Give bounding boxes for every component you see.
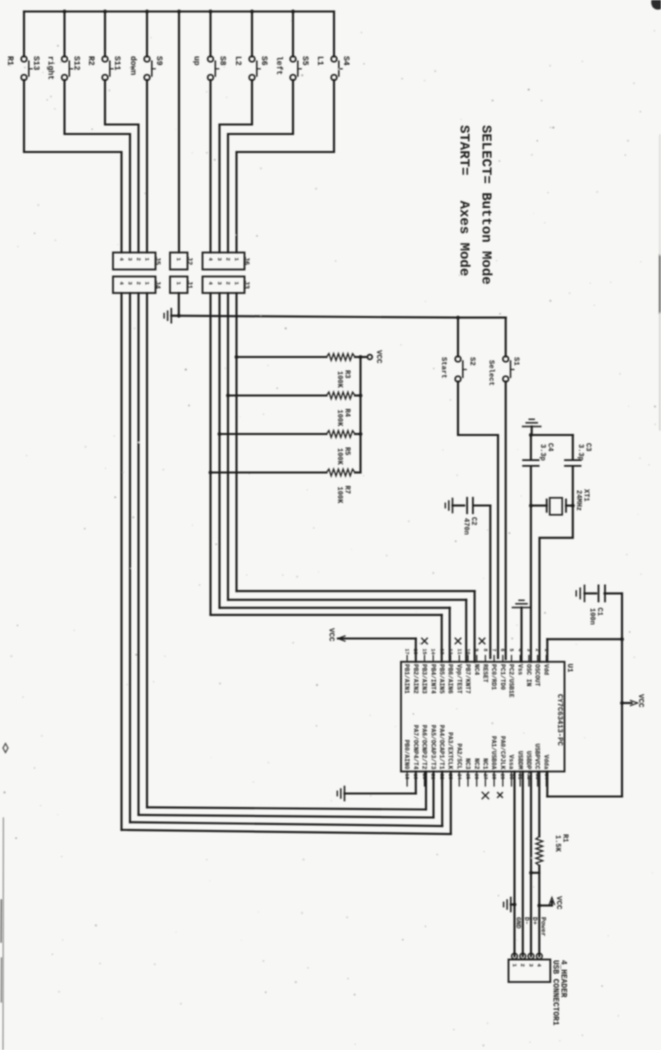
svg-text:S2: S2 — [467, 357, 475, 366]
svg-text:SELECT= Button Mode: SELECT= Button Mode — [478, 125, 494, 285]
svg-text:PB3/AIN3: PB3/AIN3 — [421, 664, 428, 694]
svg-text:USBDM: USBDM — [516, 751, 523, 770]
svg-text:down: down — [128, 56, 137, 75]
svg-text:1: 1 — [233, 258, 240, 262]
svg-text:24MHz: 24MHz — [574, 490, 582, 511]
svg-text:S9: S9 — [154, 56, 163, 66]
svg-text:10: 10 — [464, 649, 470, 655]
svg-text:J1: J1 — [185, 281, 193, 289]
svg-text:1: 1 — [511, 964, 518, 968]
svg-text:OSCOUT: OSCOUT — [534, 664, 541, 687]
svg-text:14: 14 — [430, 649, 436, 655]
svg-text:21: 21 — [430, 774, 436, 780]
svg-text:C4: C4 — [545, 443, 553, 451]
svg-text:Vdd: Vdd — [542, 664, 549, 675]
svg-text:28: 28 — [491, 774, 497, 780]
svg-text:PA3/EXTCLK: PA3/EXTCLK — [447, 732, 454, 769]
svg-text:22: 22 — [438, 774, 444, 780]
svg-text:100K: 100K — [335, 410, 343, 428]
svg-text:C1: C1 — [595, 608, 603, 616]
svg-text:L2: L2 — [233, 56, 242, 66]
svg-text:R5: R5 — [343, 447, 351, 455]
svg-text:4_HEADER: 4_HEADER — [558, 960, 566, 998]
svg-text:NC4: NC4 — [473, 664, 480, 675]
svg-text:8: 8 — [482, 649, 488, 652]
svg-text:NC3: NC3 — [464, 758, 471, 769]
svg-text:PB2/AIN2: PB2/AIN2 — [412, 664, 419, 694]
svg-text:GND: GND — [515, 917, 522, 929]
svg-text:2: 2 — [224, 282, 231, 285]
svg-text:R7: R7 — [343, 486, 351, 494]
svg-text:Vss: Vss — [516, 664, 523, 675]
svg-text:27: 27 — [482, 774, 488, 780]
svg-text:R2: R2 — [86, 56, 95, 66]
svg-text:1: 1 — [175, 282, 182, 286]
svg-text:Start: Start — [439, 357, 447, 379]
svg-text:PB7/KNT7: PB7/KNT7 — [464, 664, 471, 694]
svg-text:1: 1 — [143, 282, 150, 286]
svg-text:30: 30 — [508, 774, 514, 780]
svg-text:J4: J4 — [153, 281, 161, 289]
svg-text:PB0/AIN0: PB0/AIN0 — [403, 740, 410, 770]
svg-text:up: up — [192, 56, 201, 66]
svg-text:3: 3 — [527, 964, 534, 968]
svg-text:R3: R3 — [343, 370, 351, 378]
svg-text:USB CONNECTOR1: USB CONNECTOR1 — [551, 960, 559, 1026]
svg-text:left: left — [274, 56, 283, 75]
svg-text:3: 3 — [216, 282, 223, 286]
svg-text:12: 12 — [447, 649, 453, 655]
svg-text:29: 29 — [499, 774, 505, 780]
svg-text:Power: Power — [539, 917, 546, 937]
svg-text:PB6/AIN6: PB6/AIN6 — [447, 664, 454, 694]
svg-text:Vpp/TEST: Vpp/TEST — [455, 664, 462, 694]
svg-text:25: 25 — [464, 774, 470, 780]
svg-text:3.3p: 3.3p — [538, 444, 546, 461]
svg-text:PC2/USB1E: PC2/USB1E — [508, 664, 515, 698]
svg-text:U1: U1 — [565, 664, 573, 674]
svg-text:J2: J2 — [185, 257, 193, 265]
svg-text:2: 2 — [135, 258, 142, 261]
svg-text:6: 6 — [499, 649, 505, 652]
svg-text:VCC: VCC — [326, 628, 334, 642]
svg-text:4: 4 — [118, 258, 125, 262]
svg-text:PA6/OCNP2/T2: PA6/OCNP2/T2 — [421, 725, 428, 770]
svg-text:18: 18 — [404, 774, 410, 780]
svg-text:R1: R1 — [5, 56, 14, 66]
svg-text:17: 17 — [404, 649, 410, 655]
svg-text:S5: S5 — [300, 56, 309, 66]
svg-text:3: 3 — [126, 258, 133, 262]
svg-text:PA0/CPJLK: PA0/CPJLK — [499, 736, 506, 770]
svg-text:RESET: RESET — [482, 664, 489, 683]
svg-text:S4: S4 — [341, 56, 350, 66]
svg-text:2: 2 — [135, 282, 142, 285]
svg-text:VCC: VCC — [554, 896, 562, 910]
svg-text:PA1/USB0A: PA1/USB0A — [490, 736, 497, 770]
svg-text:XT1: XT1 — [581, 489, 589, 502]
svg-text:S11: S11 — [112, 56, 121, 71]
svg-text:23: 23 — [447, 774, 453, 780]
svg-text:24: 24 — [456, 774, 462, 780]
svg-text:PA2/SCL: PA2/SCL — [455, 744, 462, 770]
svg-text:2: 2 — [224, 258, 231, 261]
svg-text:5: 5 — [508, 649, 514, 652]
svg-text:R4: R4 — [343, 409, 351, 417]
svg-text:100K: 100K — [335, 448, 343, 466]
svg-text:S1: S1 — [511, 357, 519, 366]
svg-text:right: right — [46, 56, 55, 80]
svg-text:CY7C63413-PC: CY7C63413-PC — [555, 694, 563, 746]
svg-text:D-: D- — [523, 917, 530, 925]
svg-text:J6: J6 — [242, 257, 250, 265]
svg-text:R1: R1 — [560, 834, 568, 842]
svg-text:3: 3 — [216, 258, 223, 262]
svg-text:VCC: VCC — [636, 694, 644, 708]
svg-text:4: 4 — [118, 282, 125, 286]
svg-text:1: 1 — [233, 282, 240, 286]
svg-text:Vdda: Vdda — [542, 755, 549, 770]
svg-text:C3: C3 — [583, 443, 591, 451]
svg-text:Vssa: Vssa — [508, 755, 515, 770]
svg-text:2: 2 — [519, 964, 526, 967]
svg-text:USBPVCC: USBPVCC — [534, 744, 541, 770]
svg-text:100K: 100K — [335, 487, 343, 505]
svg-text:16: 16 — [412, 649, 418, 655]
svg-text:S12: S12 — [71, 56, 80, 71]
svg-text:20: 20 — [421, 774, 427, 780]
svg-text:11: 11 — [456, 649, 462, 655]
svg-text:3: 3 — [126, 282, 133, 286]
svg-text:1: 1 — [143, 258, 150, 262]
svg-text:NC2: NC2 — [473, 758, 480, 769]
svg-text:C2: C2 — [469, 517, 477, 525]
svg-text:4: 4 — [207, 282, 214, 286]
svg-text:7: 7 — [491, 649, 497, 652]
svg-text:J3: J3 — [242, 281, 250, 289]
svg-text:15: 15 — [421, 649, 427, 655]
svg-text:9: 9 — [473, 649, 479, 652]
svg-text:OSC IN: OSC IN — [525, 664, 532, 687]
svg-text:4: 4 — [536, 964, 543, 968]
svg-text:PA5/OCAP3/T3: PA5/OCAP3/T3 — [429, 725, 436, 770]
svg-text:4: 4 — [207, 258, 214, 262]
svg-text:1.5K: 1.5K — [553, 835, 561, 853]
svg-text:D+: D+ — [531, 917, 538, 925]
svg-text:S6: S6 — [259, 56, 268, 66]
svg-text:1: 1 — [175, 258, 182, 262]
svg-text:PC0/RD1: PC0/RD1 — [490, 664, 497, 690]
svg-text:J5: J5 — [153, 257, 161, 265]
svg-text:PB5/AIN5: PB5/AIN5 — [438, 664, 445, 694]
svg-text:100n: 100n — [587, 608, 595, 625]
svg-text:3.3p: 3.3p — [576, 444, 584, 461]
svg-text:S8: S8 — [217, 56, 226, 66]
svg-text:Select: Select — [486, 360, 494, 386]
svg-text:START= Axes Mode: START= Axes Mode — [456, 125, 472, 276]
svg-text:26: 26 — [473, 774, 479, 780]
svg-text:USBDP: USBDP — [525, 751, 532, 770]
svg-text:100K: 100K — [335, 371, 343, 389]
svg-text:VCC: VCC — [374, 350, 382, 364]
svg-text:NC1: NC1 — [482, 758, 489, 769]
svg-text:PA7/OCNP4/T4: PA7/OCNP4/T4 — [412, 725, 419, 770]
svg-text:PA4/OCAP1/T1: PA4/OCAP1/T1 — [438, 725, 445, 770]
svg-text:L1: L1 — [315, 56, 324, 66]
svg-text:PB1/AIN1: PB1/AIN1 — [403, 664, 410, 694]
svg-text:470n: 470n — [461, 518, 469, 535]
svg-text:13: 13 — [438, 649, 444, 655]
svg-text:PC1/TD0: PC1/TD0 — [499, 664, 506, 690]
svg-text:PB4/INT4: PB4/INT4 — [429, 664, 436, 694]
svg-text:S13: S13 — [31, 56, 40, 71]
